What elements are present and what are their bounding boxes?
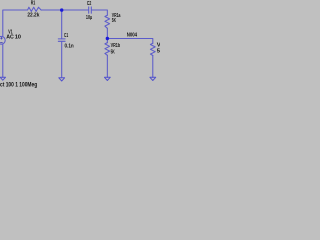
wire VR1b bottom to ground [106, 55, 108, 77]
junction node at VR1a/VR1b/N004 [106, 37, 109, 40]
svg-text:0.1n: 0.1n [65, 43, 75, 49]
resistor R2 (right, clipped) [150, 43, 155, 55]
resistor VR1a [105, 15, 110, 28]
wire V1 bottom to ground [2, 44, 4, 77]
wire VR1a bottom to node junction [106, 28, 108, 43]
capacitor C1 [58, 39, 65, 41]
svg-text:C2: C2 [87, 1, 91, 7]
resistor VR1b [105, 43, 110, 56]
capacitor C2 [89, 7, 92, 13]
svg-text:C1: C1 [64, 33, 69, 39]
wire junction to C1 top [61, 10, 63, 39]
ground of C1 [59, 78, 65, 81]
ground of V1 [0, 77, 5, 80]
wire C2 to VR1a [91, 10, 107, 15]
svg-text:N004: N004 [127, 32, 138, 38]
svg-text:AC: AC [6, 34, 14, 40]
junction node at R1/C1/C2 [60, 8, 63, 11]
wire R2 bottom to ground [152, 55, 154, 77]
svg-text:10µ: 10µ [86, 15, 92, 21]
ground of R2 [150, 77, 156, 80]
resistor R1 [28, 7, 42, 11]
svg-text:ct 100 1 100Meg: ct 100 1 100Meg [0, 82, 37, 89]
svg-text:5K: 5K [112, 18, 117, 24]
V1 plus mark [0, 37, 2, 39]
V1 minus mark [0, 42, 2, 44]
svg-text:0: 0 [18, 34, 21, 40]
svg-text:22.2k: 22.2k [27, 13, 40, 19]
svg-text:5K: 5K [157, 48, 160, 54]
svg-text:R1: R1 [31, 1, 36, 7]
svg-text:VR1b: VR1b [111, 43, 121, 49]
ground of VR1b [104, 77, 110, 80]
wire top-left corner from V1 up to R1 [3, 10, 28, 37]
wire C1 bottom to ground [61, 41, 63, 77]
wire node N004 horizontal [107, 39, 152, 44]
wire R1 to C2 [41, 9, 88, 11]
svg-text:5K: 5K [111, 49, 116, 55]
voltage source V1 circle [0, 36, 5, 44]
